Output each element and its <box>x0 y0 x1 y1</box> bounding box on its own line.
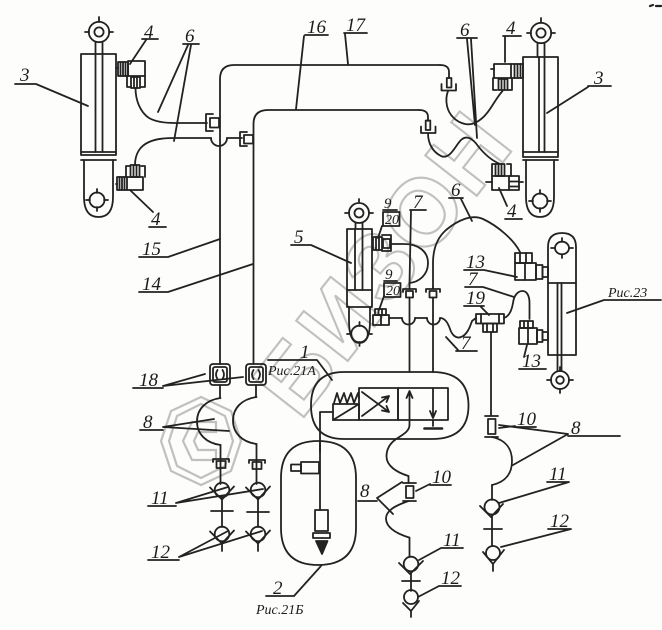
svg-text:9: 9 <box>385 267 393 283</box>
pipe 17 top <box>220 65 440 364</box>
svg-text:10: 10 <box>432 467 452 488</box>
drain from 19 down <box>490 332 492 415</box>
svg-text:Рис.21Б: Рис.21Б <box>255 603 304 618</box>
svg-text:13: 13 <box>522 351 541 372</box>
fitting 13 top <box>515 253 548 280</box>
box around 20 bottom <box>384 283 401 297</box>
leader label 6 left <box>158 44 199 141</box>
drain valve 11 right <box>480 500 503 547</box>
svg-text:7: 7 <box>461 333 472 354</box>
hose cyl3L bottom port to pipe14 <box>135 138 211 165</box>
fitting 4 top-left <box>116 61 145 88</box>
leader label 7 low <box>446 337 477 351</box>
svg-text:8: 8 <box>143 412 153 433</box>
leader label Ris23 <box>567 300 661 313</box>
coupling B <box>426 287 440 372</box>
stadium Ris21B <box>281 441 356 565</box>
hose pipe17 to cyl3R top port <box>446 91 502 124</box>
valve square crossed arrows <box>359 388 398 420</box>
leader label 12 mid <box>418 586 461 597</box>
leader label 18 <box>133 374 243 388</box>
svg-text:4: 4 <box>144 22 154 43</box>
fitting 4 bottom-right <box>486 164 523 190</box>
fitting 19 <box>476 314 504 332</box>
svg-text:4: 4 <box>507 201 517 222</box>
hose cyl3L top port to pipe15 <box>136 88 208 123</box>
watermark logo ring <box>161 397 241 485</box>
jump over line B <box>427 318 440 325</box>
hose 7 arch to cyl Ris23 bottom port <box>504 291 530 319</box>
svg-text:11: 11 <box>151 488 169 509</box>
wave to fitting 19 <box>440 318 476 338</box>
coupling A <box>403 283 416 372</box>
injector flange <box>313 533 330 538</box>
leader label 3 left <box>15 84 88 106</box>
leader label 12 left <box>148 531 262 560</box>
leader label 13 top <box>464 270 517 277</box>
hose f9bottom across <box>389 317 402 319</box>
pipe 17 right corner <box>440 65 449 78</box>
svg-text:9: 9 <box>384 196 392 212</box>
watermark logo inner C <box>183 422 216 460</box>
svg-text:15: 15 <box>142 239 161 260</box>
svg-text:19: 19 <box>466 288 486 309</box>
hose pipe16 to cyl3R bottom port <box>428 133 500 164</box>
leader label 8 left <box>140 419 229 431</box>
fitting 4 bottom-left <box>116 165 145 190</box>
valve block stadium Ris21A <box>311 372 469 439</box>
cylinder 3 left body <box>81 17 116 217</box>
pipe 16 right corner <box>419 110 428 121</box>
leader label 5 <box>291 245 351 263</box>
valve square arrows <box>398 388 448 429</box>
leader label 14 <box>139 264 253 292</box>
solenoid drain line <box>320 412 333 452</box>
right bulge hose <box>492 437 512 485</box>
svg-text:6: 6 <box>185 26 195 47</box>
leader label 15 <box>139 239 220 257</box>
wire to fitting <box>227 137 242 139</box>
line from valve to drain <box>409 420 411 425</box>
check valve 10 right <box>485 416 498 437</box>
leader label 4 top-right <box>503 36 521 62</box>
svg-text:8: 8 <box>360 481 370 502</box>
svg-text:5: 5 <box>294 227 304 248</box>
svg-text:10: 10 <box>517 409 537 430</box>
injector tip <box>316 541 328 554</box>
drain valve 12 right <box>483 546 504 571</box>
fitting on pipe 17 right <box>442 78 457 91</box>
svg-text:11: 11 <box>549 464 567 485</box>
fitting 4 top-right <box>491 64 523 90</box>
leader label 7 mid <box>465 287 514 297</box>
svg-text:8: 8 <box>571 418 581 439</box>
leader label 16 <box>296 35 328 109</box>
leader label 8 right <box>499 425 620 465</box>
leader label 1 <box>268 360 332 380</box>
hose arch 6 to cyl Ris23 top port <box>433 217 520 287</box>
leader label 10 left <box>416 484 451 491</box>
svg-text:6: 6 <box>460 20 470 41</box>
svg-text:4: 4 <box>151 209 161 230</box>
drain mid-left from valve block <box>386 425 423 617</box>
svg-text:1: 1 <box>300 342 310 363</box>
leader label 9 top <box>378 210 397 238</box>
throttle 18 left <box>210 364 230 385</box>
svg-text:14: 14 <box>142 274 162 295</box>
leader label 8 mid <box>358 482 402 514</box>
leader label 6 mid <box>449 198 472 221</box>
leader label 10 right <box>499 426 536 428</box>
leader label 12 right <box>501 529 571 547</box>
wire jump over pipe15 <box>211 138 227 146</box>
svg-text:4: 4 <box>506 18 516 39</box>
jump over line A <box>402 318 415 325</box>
watermark group <box>161 92 533 485</box>
svg-text:3: 3 <box>19 65 30 86</box>
leader label 7 top <box>410 210 427 284</box>
leader label 6 right <box>457 38 477 138</box>
leader label 11 left <box>148 487 263 506</box>
svg-text:20: 20 <box>386 284 400 299</box>
svg-text:6: 6 <box>451 180 461 201</box>
cylinder Ris23 <box>547 233 576 393</box>
svg-text:12: 12 <box>151 542 171 563</box>
svg-text:7: 7 <box>413 192 424 213</box>
inner line <box>319 440 321 510</box>
spring <box>334 393 359 403</box>
svg-text:20: 20 <box>385 213 399 228</box>
fitting 13 bottom <box>519 321 548 344</box>
svg-text:16: 16 <box>307 17 327 38</box>
leader label 4 bottom-left <box>130 190 166 227</box>
svg-text:17: 17 <box>346 15 367 36</box>
drain line left B <box>233 385 270 551</box>
fitting 9 bottom <box>373 309 389 325</box>
leader label 2 <box>266 566 321 596</box>
svg-text:12: 12 <box>441 568 461 589</box>
leader label 9 bottom <box>379 281 397 310</box>
leader label 13 bottom <box>519 345 546 369</box>
fitting on pipe 14 <box>240 132 253 146</box>
fitting on pipe 16 right <box>421 121 436 134</box>
grease tool <box>291 462 319 474</box>
cylinder 5 <box>345 199 373 346</box>
cylinder 3 right body <box>523 18 558 217</box>
leader label 19 <box>464 306 489 315</box>
svg-text:12: 12 <box>550 511 570 532</box>
fitting on pipe 15 <box>206 114 219 131</box>
svg-text:11: 11 <box>443 530 461 551</box>
svg-text:2: 2 <box>273 578 283 599</box>
leader label 3 right <box>547 86 611 113</box>
drain line left A <box>197 385 234 551</box>
pipe 16 top <box>254 110 420 364</box>
svg-text:Рис.21А: Рис.21А <box>267 364 316 379</box>
svg-text:Рис.23: Рис.23 <box>607 286 647 301</box>
box around 20 top <box>383 212 400 226</box>
fitting 9 top <box>373 235 391 251</box>
leader label 17 <box>344 33 367 64</box>
leader label 11 right <box>499 482 569 503</box>
svg-text:3: 3 <box>593 68 604 89</box>
svg-text:18: 18 <box>139 370 159 391</box>
leader label 4 bottom-right <box>499 188 522 219</box>
solenoid square <box>333 404 359 420</box>
hose f9top to coupling <box>391 244 428 283</box>
scan speck top-right <box>650 5 661 6</box>
leader label 4 top-left <box>130 39 158 64</box>
throttle 18 right <box>246 364 266 385</box>
svg-text:7: 7 <box>468 269 479 290</box>
injector body <box>315 510 328 531</box>
leader label 11 mid <box>419 548 463 560</box>
